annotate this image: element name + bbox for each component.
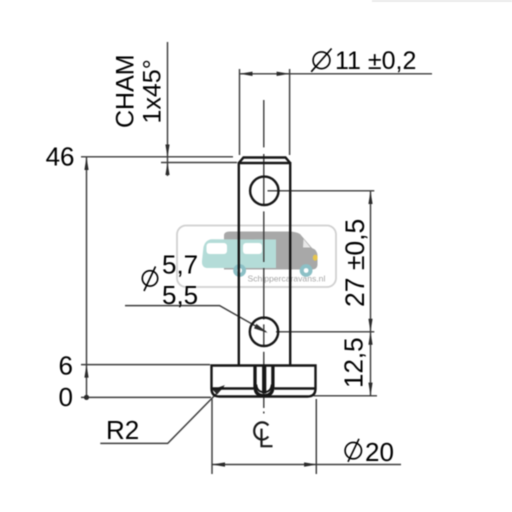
svg-text:46: 46: [46, 142, 75, 172]
svg-text:5,5: 5,5: [162, 280, 198, 310]
svg-text:27 ±0,5: 27 ±0,5: [340, 219, 370, 307]
svg-text:CHAM: CHAM: [112, 54, 140, 128]
svg-text:1x45°: 1x45°: [139, 59, 167, 123]
svg-text:5,7: 5,7: [162, 250, 198, 280]
svg-text:R2: R2: [106, 415, 139, 445]
svg-text:11 ±0,2: 11 ±0,2: [335, 47, 416, 75]
svg-text:Schippercaravans.nl: Schippercaravans.nl: [248, 274, 326, 284]
svg-text:20: 20: [365, 437, 394, 467]
svg-text:6: 6: [59, 351, 73, 381]
svg-text:0: 0: [59, 382, 73, 412]
svg-text:12,5: 12,5: [339, 337, 369, 388]
